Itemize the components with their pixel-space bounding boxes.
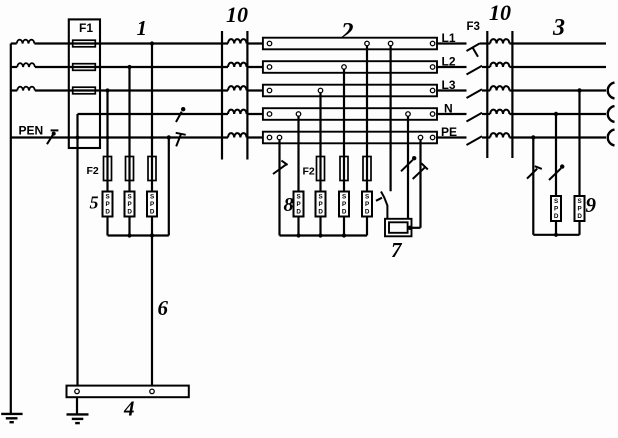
terminals busbar L2 (267, 65, 435, 70)
wire 6 (earthing conductor to bar 4) (151, 236, 153, 386)
device 7 inner box (389, 222, 408, 233)
wire N tap to group 9 SPD (555, 114, 557, 196)
socket outlet L3 (608, 83, 615, 99)
wire N (right section) (482, 113, 606, 115)
svg-text:10: 10 (489, 0, 511, 25)
switch above device 7 (from L1) (376, 192, 387, 219)
svg-text:5: 5 (90, 193, 99, 213)
wire N busbar tap to device 7 (407, 116, 409, 219)
fuse F2 (group 5, L2 branch) (126, 157, 134, 181)
wire L2 busbar tap to group 8 fuse (343, 69, 345, 191)
svg-text:SPD: SPD (296, 194, 301, 216)
device 7 PE-line disconnect mark (slash with tick) (413, 163, 428, 179)
fuse assembly F1 box (69, 19, 100, 148)
svg-text:SPD: SPD (365, 194, 370, 216)
main earthing busbar 4 (67, 386, 189, 398)
wire busbar 4 to earth (76, 397, 78, 414)
SPD arrester (group 8, L1) (362, 192, 372, 217)
wire L1 (right section) (480, 42, 607, 44)
socket outlet PE (608, 130, 615, 146)
junction group 5 bus (127, 233, 154, 237)
switch F3 N (467, 113, 483, 122)
decoupling choke frame 10 (right) (487, 31, 512, 158)
svg-text:1: 1 (137, 16, 148, 40)
node L3 tap (right) (577, 88, 581, 92)
junction group 9 bus (554, 233, 558, 237)
busbar L2 (263, 61, 437, 73)
wire L1 busbar tap to group 8 fuse (366, 46, 368, 192)
wire L3 tap to group 9 SPD (578, 91, 580, 197)
choke coil L2 (228, 63, 247, 67)
device 7 (surge counter, outer box) (385, 219, 412, 237)
svg-text:9: 9 (586, 193, 597, 217)
wires SPD-to-bus group 9 (556, 221, 580, 235)
svg-text:7: 7 (391, 238, 403, 262)
wire PE busbar tap to group 8 bus (278, 140, 280, 236)
group 9 N branch disconnect mark (slash with dot) (549, 164, 564, 180)
PE line disconnect mark (slash with tick) (176, 133, 186, 147)
terminals busbar L3 (267, 88, 435, 93)
socket outlet N (608, 106, 615, 122)
switch F3 L1 (blade with trip tick) (467, 44, 480, 57)
svg-text:SPD: SPD (554, 198, 559, 220)
group 8 PE branch disconnect mark (slash with tick) (273, 161, 288, 174)
group 9 PE branch disconnect mark (slash with tick) (527, 166, 542, 178)
wire group 5 common bus (108, 234, 169, 236)
switch F3 L3 (467, 89, 483, 98)
choke coil L2 (right) (490, 63, 509, 67)
terminals busbar N (267, 112, 435, 117)
terminals busbar L1 (267, 41, 435, 46)
SPD arrester (group 8, N) (294, 192, 304, 217)
svg-text:F2: F2 (87, 165, 99, 177)
wire L3 (11, 89, 263, 91)
busbar L3 (263, 85, 437, 97)
wire L1 (source to busbar 1) (11, 42, 263, 44)
fuse F1 L3 (73, 87, 96, 94)
fuse F2 (group 8, L3 branch) (317, 157, 325, 181)
svg-text:F3: F3 (467, 21, 480, 33)
svg-text:SPD: SPD (342, 194, 347, 216)
choke coil L3 (228, 86, 247, 90)
choke coil N (right) (490, 110, 509, 114)
svg-text:3: 3 (552, 15, 565, 41)
fuse F2 (group 5, L1 branch) (148, 157, 156, 181)
wire L3 tap down to group 5 (106, 91, 108, 192)
junction group 8 bus (296, 233, 346, 237)
node L3 tap (105, 88, 109, 92)
wire N to F3 switch (437, 113, 467, 115)
choke coil PE (right) (490, 133, 509, 137)
transformer winding L1 (17, 40, 35, 44)
N line disconnect mark (slash with dot) (176, 107, 185, 122)
svg-text:SPD: SPD (577, 198, 582, 220)
busbar L1 (263, 38, 437, 50)
wires SPD-to-bus group 5 (108, 217, 153, 236)
node L1 tap (150, 41, 154, 45)
choke coil N (228, 110, 247, 114)
wire group 9 common bus (533, 234, 579, 236)
wire PE (right section) (482, 136, 606, 138)
wire PEN conductor (11, 136, 263, 138)
wire L2 (right section) (482, 66, 606, 68)
wire L3 (right section) (482, 89, 606, 91)
busbar PE (263, 132, 437, 144)
wire PEN-to-earth riser (76, 114, 78, 386)
wire group 5 PE drop (168, 138, 170, 236)
wire L1 busbar tap to switch above device 7 (390, 46, 392, 192)
svg-text:8: 8 (284, 194, 294, 216)
choke coil PE (228, 133, 247, 137)
wire L3 to F3 switch (437, 89, 467, 91)
wire N busbar tap to group 8 SPD (297, 116, 299, 191)
SPD arrester (group 8, L2) (339, 192, 349, 217)
wire L2 (11, 66, 263, 68)
wire L2 tap down to group 5 (128, 67, 130, 192)
svg-text:4: 4 (123, 397, 135, 421)
svg-text:6: 6 (158, 296, 169, 320)
wire L1 to F3 switch (437, 42, 467, 44)
PEN disconnect mark (slash with dot and tick) (47, 130, 58, 144)
fuse F2 (group 8, L1 branch) (363, 157, 371, 181)
switch F3 L2 (467, 66, 483, 75)
svg-text:SPD: SPD (150, 194, 155, 216)
choke coil L3 (right) (490, 86, 509, 90)
busbar N (263, 108, 437, 120)
svg-text:F1: F1 (79, 21, 93, 35)
SPD arrester (group 5, L2) (125, 192, 135, 217)
fuse F1 L2 (73, 64, 96, 71)
node N tap (right) (554, 112, 558, 116)
decoupling choke frame 10 (left) (222, 31, 247, 160)
transformer star-point vertical (source neutral) (10, 44, 12, 414)
transformer winding L2 (17, 63, 35, 67)
node PE tap (right) (531, 135, 535, 139)
fuse F2 (group 8, L2 branch) (340, 157, 348, 181)
wire L3 busbar tap to group 8 fuse (319, 93, 321, 192)
wire PE tap to group 9 bus (532, 138, 534, 235)
node L2 tap (127, 65, 131, 69)
svg-text:SPD: SPD (105, 194, 110, 216)
svg-text:PEN: PEN (19, 124, 44, 138)
wires SPD-to-bus group 8 (299, 217, 368, 236)
fuse F1 L1 (73, 40, 96, 47)
svg-text:SPD: SPD (318, 194, 323, 216)
ground (busbar 4 earth) (67, 414, 89, 423)
terminals busbar PE (267, 135, 435, 140)
wire L2 to F3 switch (437, 66, 467, 68)
transformer winding L3 (17, 87, 35, 91)
wire PE busbar tap to device 7 side (410, 140, 421, 228)
wire group 8 common bus (280, 234, 368, 236)
svg-text:SPD: SPD (127, 194, 132, 216)
junction at device 7 right side (408, 226, 412, 230)
svg-text:F2: F2 (303, 166, 315, 178)
wire PE to F3 switch (437, 136, 467, 138)
SPD arrester (group 9, N) (551, 196, 561, 221)
SPD arrester (group 5, L3) (103, 192, 113, 217)
terminals busbar 4 (75, 389, 155, 394)
SPD arrester (group 5, L1) (147, 192, 157, 217)
fuse F2 (group 5, L3 branch) (104, 157, 112, 181)
wire N conductor (split from PEN) (78, 113, 263, 115)
SPD arrester (group 9, L3) (575, 196, 585, 221)
svg-text:10: 10 (226, 2, 248, 27)
device 7 N-line disconnect mark (slash with dot) (401, 156, 416, 171)
ground (source earth, bottom-left) (1, 414, 22, 422)
junction dots on PEN line at crossings (106, 135, 171, 139)
choke coil L1 (228, 39, 247, 43)
choke coil L1 (right) (490, 39, 509, 43)
junction PEN riser (75, 135, 79, 139)
wire L1 tap down to group 5 (151, 44, 153, 192)
switch F3 PE (467, 136, 483, 145)
SPD arrester (group 8, L3) (316, 192, 326, 217)
